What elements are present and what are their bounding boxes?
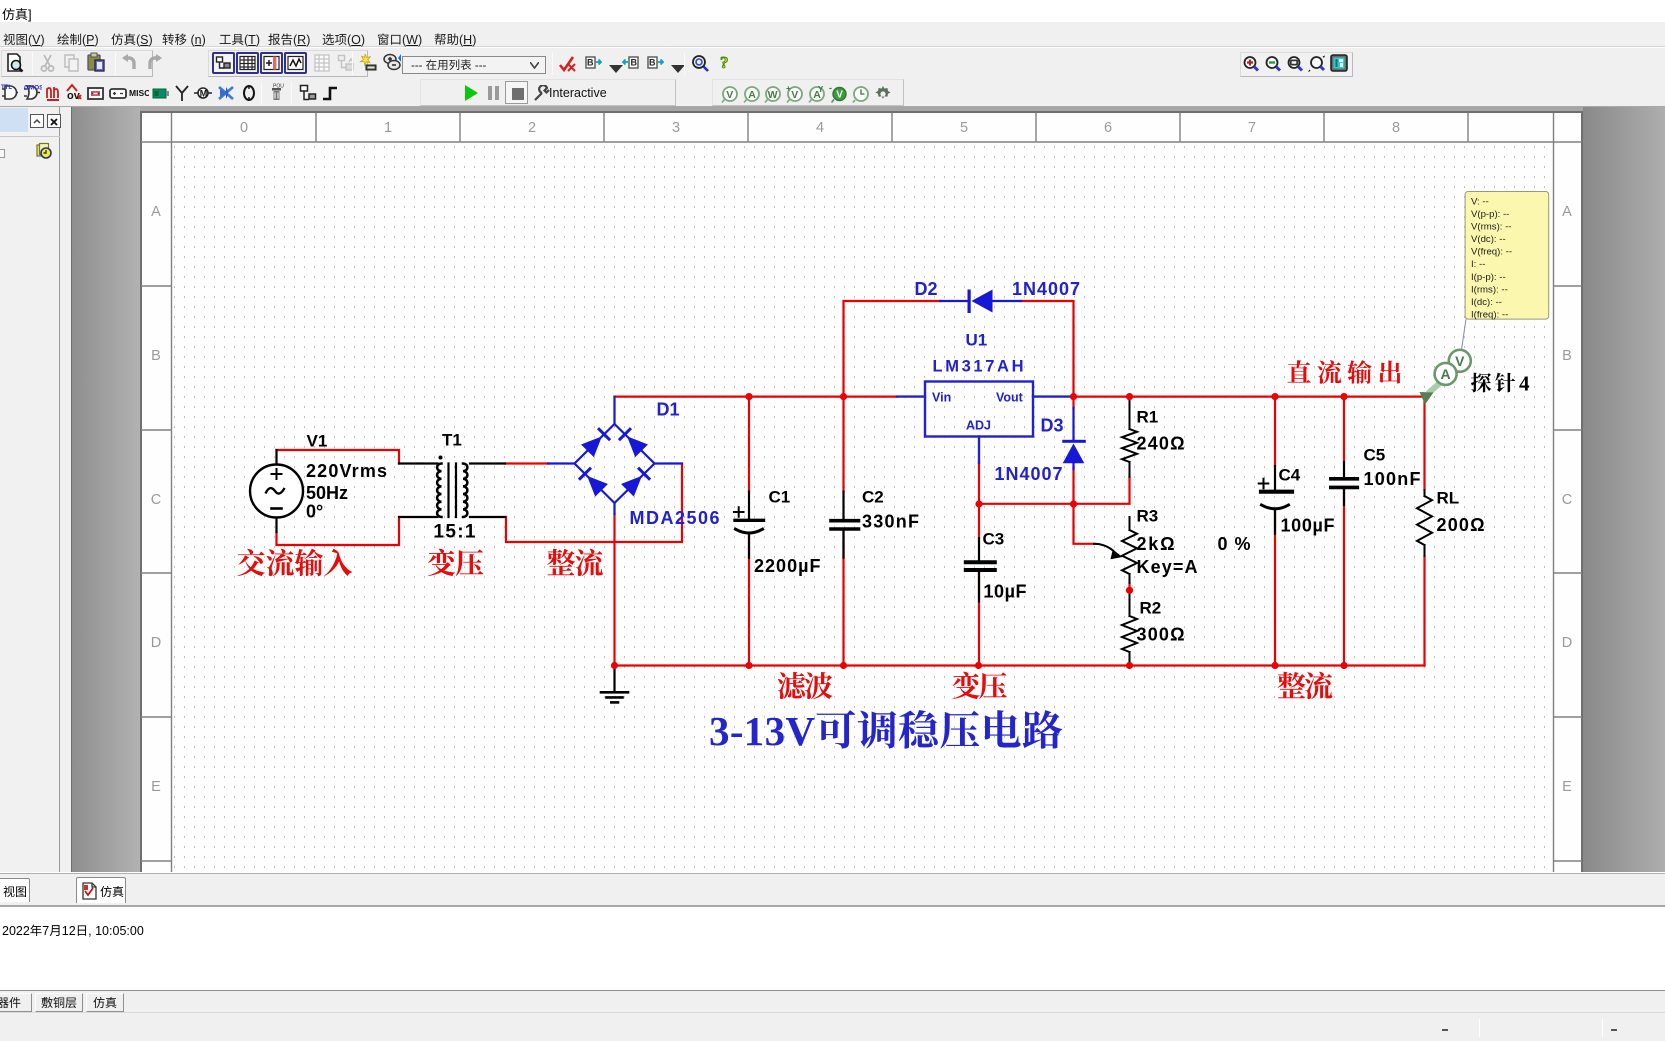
svg-text:I(p-p): --: I(p-p): -- — [1471, 272, 1506, 283]
svg-text:6: 6 — [1104, 120, 1112, 136]
R3 labels — [1137, 507, 1251, 577]
svg-text:10µF: 10µF — [984, 581, 1027, 601]
svg-text:Key=A: Key=A — [1137, 557, 1198, 577]
svg-text:A: A — [151, 204, 161, 220]
svg-text:MISC: MISC — [129, 88, 149, 98]
svg-text:B: B — [649, 58, 656, 68]
RL labels — [1437, 489, 1485, 535]
svg-text:V: V — [836, 90, 843, 101]
svg-text:C3: C3 — [983, 530, 1005, 549]
junction: C3 bottom — [975, 662, 982, 669]
junction: C2 top / D2 branch — [840, 393, 847, 400]
svg-text:2200µF: 2200µF — [754, 556, 821, 576]
svg-text:U1: U1 — [966, 331, 988, 350]
potentiometer R3 — [1094, 517, 1137, 583]
svg-text:V: V — [726, 89, 733, 101]
resistor R2 — [1122, 590, 1137, 665]
svg-text:C5: C5 — [1364, 445, 1386, 464]
resistor R1 — [1122, 397, 1137, 477]
wire: Vout rail to output — [1074, 396, 1425, 398]
wire: C4 branch — [1274, 397, 1276, 666]
diode D2 1N4007 — [940, 290, 1021, 314]
svg-text:CMOS: CMOS — [24, 85, 42, 92]
svg-text:50Hz: 50Hz — [306, 483, 348, 503]
svg-text:I(dc): --: I(dc): -- — [1471, 297, 1502, 308]
svg-text:?: ? — [720, 53, 729, 72]
svg-text:1N4007: 1N4007 — [995, 464, 1063, 484]
svg-text:D1: D1 — [657, 400, 680, 420]
svg-text:100nF: 100nF — [1364, 469, 1421, 489]
svg-text:I: --: I: -- — [1471, 259, 1485, 270]
svg-text:300Ω: 300Ω — [1137, 625, 1185, 645]
menu bar — [0, 22, 1665, 47]
svg-text:C: C — [1562, 492, 1572, 508]
junction: R2 bottom — [1126, 662, 1133, 669]
svg-text:R3: R3 — [1137, 507, 1159, 526]
wire: ADJ node horizontal — [979, 463, 1130, 504]
capacitor C3 — [966, 538, 995, 601]
wire: C2 branch — [842, 397, 844, 666]
junction: ground rail / bridge — [611, 662, 618, 669]
svg-text:整流: 整流 — [1277, 665, 1333, 706]
capacitor C1 (polarized) — [734, 492, 764, 558]
svg-text:D: D — [151, 635, 161, 651]
title bar — [0, 0, 1665, 22]
wire: bridge bottom to ground rail — [613, 514, 615, 666]
wire: RL branch — [1423, 397, 1425, 666]
svg-text:V(dc): --: V(dc): -- — [1471, 234, 1506, 245]
wire: C5 branch — [1343, 397, 1345, 666]
wire: T1 secondary bottom to bridge right — [506, 464, 682, 542]
V1 labels — [306, 432, 387, 522]
C3 labels — [983, 530, 1027, 602]
wire: D2 bypass branch — [844, 301, 942, 397]
junction: C5 top — [1340, 393, 1347, 400]
svg-text:Vout: Vout — [996, 391, 1024, 405]
junction: C1 bottom — [745, 662, 752, 669]
svg-text:C4: C4 — [1279, 465, 1301, 484]
C1 labels — [754, 487, 821, 576]
junction: C2 bottom — [840, 662, 847, 669]
svg-text:V(freq): --: V(freq): -- — [1471, 247, 1512, 258]
svg-text:A: A — [1562, 204, 1572, 220]
R1 labels — [1137, 408, 1185, 454]
bridge rectifier D1 MDA2506 — [548, 397, 682, 514]
svg-text:T1: T1 — [442, 431, 462, 450]
U1 labels — [932, 331, 1024, 433]
svg-text:-: - — [829, 84, 832, 93]
svg-text:C: C — [151, 492, 161, 508]
results pane — [0, 905, 1665, 990]
bottom tab row — [0, 990, 1665, 1012]
svg-text:V(rms): --: V(rms): -- — [1471, 222, 1512, 233]
probe 4 (AV measurement probe) — [1420, 319, 1471, 404]
svg-text:B: B — [1562, 348, 1572, 364]
svg-text:I(freq): --: I(freq): -- — [1471, 309, 1508, 320]
svg-text:滤波: 滤波 — [777, 665, 833, 706]
svg-text:1: 1 — [384, 120, 392, 136]
svg-text:MDA2506: MDA2506 — [630, 508, 720, 528]
wire: V1 top to T1 primary top — [277, 450, 400, 464]
wire: T1 secondary top to bridge left — [505, 462, 549, 464]
svg-text:B: B — [587, 58, 594, 68]
svg-text:C2: C2 — [862, 487, 884, 506]
wire: main DC rail bridge top to U1 Vin — [615, 396, 898, 398]
svg-text:5: 5 — [960, 120, 968, 136]
svg-text:330nF: 330nF — [862, 511, 919, 531]
capacitor C2 — [831, 492, 859, 558]
junction: C5 bottom — [1340, 662, 1347, 669]
svg-text:ADJ: ADJ — [966, 419, 991, 433]
diode D3 1N4007 — [1062, 408, 1086, 469]
svg-text:W: W — [768, 89, 778, 101]
svg-text:M: M — [200, 88, 208, 98]
svg-text:变压: 变压 — [427, 542, 484, 583]
svg-text:TTL: TTL — [1, 85, 12, 91]
svg-text:R2: R2 — [1140, 599, 1162, 618]
load resistor RL — [1417, 490, 1432, 556]
junction: C4 top — [1271, 393, 1278, 400]
regulator U1 LM317AH — [897, 382, 1074, 464]
status bar — [0, 1012, 1665, 1041]
R2 labels — [1137, 599, 1185, 645]
svg-text:0 %: 0 % — [1218, 534, 1251, 554]
svg-text:7: 7 — [1248, 120, 1256, 136]
svg-text:C1: C1 — [769, 487, 791, 506]
svg-text:V1: V1 — [307, 432, 328, 451]
T1 labels — [434, 431, 476, 543]
wire: C1 branch — [748, 397, 750, 666]
svg-text:整流: 整流 — [547, 542, 604, 583]
svg-text:100µF: 100µF — [1281, 516, 1335, 536]
C5 labels — [1364, 445, 1421, 489]
svg-text:Vin: Vin — [932, 391, 951, 405]
transformer T1 — [399, 456, 505, 518]
svg-text:15:1: 15:1 — [434, 522, 476, 543]
svg-text:4: 4 — [816, 120, 824, 136]
wire: V1 bottom loop to T1 primary bottom — [277, 517, 400, 545]
svg-text:200Ω: 200Ω — [1437, 515, 1485, 535]
svg-text:3-13V可调稳压电路: 3-13V可调稳压电路 — [709, 708, 1063, 754]
design toolbox panel (left, clipped) — [0, 107, 72, 872]
svg-text:8: 8 — [1392, 120, 1400, 136]
C4 labels — [1279, 465, 1335, 535]
svg-text:V: --: V: -- — [1471, 197, 1489, 208]
svg-text:D3: D3 — [1041, 416, 1064, 436]
svg-text:0°: 0° — [306, 502, 323, 522]
svg-text:RL: RL — [1437, 489, 1460, 508]
svg-text:D2: D2 — [915, 279, 938, 299]
svg-text:探针4: 探针4 — [1471, 368, 1531, 398]
svg-text:0: 0 — [240, 120, 248, 136]
junction: R1 top — [1126, 393, 1133, 400]
svg-text:B: B — [151, 348, 161, 364]
D1 labels — [630, 400, 720, 529]
junction: Vout / D3 — [1070, 393, 1077, 400]
svg-text:变压: 变压 — [952, 665, 1008, 706]
svg-text:交流输入: 交流输入 — [237, 542, 353, 583]
wire: R3 to R2 — [1128, 583, 1130, 590]
C2 labels — [862, 487, 919, 531]
ground — [601, 666, 628, 703]
junction: C4 bottom — [1271, 662, 1278, 669]
junction: ADJ / C3 — [975, 500, 982, 507]
probe tooltip (measurement readout box) — [1465, 192, 1549, 321]
junction: R3-R2 — [1126, 587, 1133, 594]
wire: C3 branch — [978, 504, 980, 666]
AC source V1 — [250, 450, 303, 532]
wire: ground rail (bottom bus) — [615, 664, 1425, 666]
wire: R3 wiper feed — [1074, 504, 1095, 544]
svg-text:B: B — [631, 58, 638, 68]
svg-text:3: 3 — [672, 120, 680, 136]
svg-text:A: A — [1441, 366, 1451, 382]
svg-text:220Vrms: 220Vrms — [306, 461, 387, 481]
svg-text:1N4007: 1N4007 — [1012, 279, 1080, 299]
D3 labels — [995, 416, 1064, 485]
svg-text:2: 2 — [528, 120, 536, 136]
junction: D3 anode / wiper — [1070, 500, 1077, 507]
sheet tab strip — [0, 873, 1665, 905]
svg-text:I(rms): --: I(rms): -- — [1471, 284, 1508, 295]
svg-text:V: V — [791, 89, 798, 101]
capacitor C4 (polarized) — [1259, 466, 1292, 534]
svg-text:E: E — [1562, 779, 1572, 795]
svg-text:D: D — [1562, 635, 1572, 651]
svg-text:+: + — [786, 84, 791, 93]
svg-text:V(p-p): --: V(p-p): -- — [1471, 209, 1509, 220]
wire: D3 column — [1072, 397, 1074, 504]
junction: C1 top / DC rail — [745, 393, 752, 400]
svg-text:A: A — [748, 89, 756, 101]
svg-text:240Ω: 240Ω — [1137, 434, 1185, 454]
D2 labels — [915, 279, 1081, 299]
svg-text:R1: R1 — [1137, 408, 1159, 427]
capacitor C5 — [1331, 462, 1358, 505]
svg-text:2kΩ: 2kΩ — [1137, 534, 1175, 554]
svg-text:V: V — [1455, 353, 1465, 369]
svg-text:Y: Y — [818, 85, 824, 94]
svg-text:E: E — [151, 779, 161, 795]
